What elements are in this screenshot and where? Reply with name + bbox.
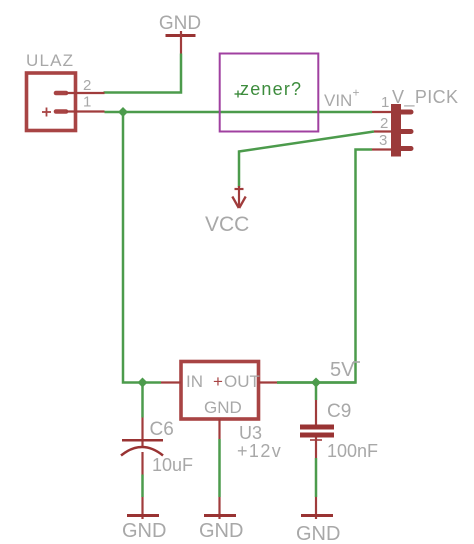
svg-text:2: 2 [83, 77, 91, 94]
svg-text:+12v: +12v [237, 441, 282, 461]
wire 5V junction down to C9 [315, 383, 318, 401]
capacitor C9 [300, 400, 378, 461]
svg-text:GND: GND [204, 398, 242, 417]
ground GND (U3) [199, 497, 243, 542]
wire junction down to C6 [141, 383, 144, 418]
ground GND (top) [159, 13, 201, 54]
label U3 / +12v [237, 423, 282, 461]
zener? box [220, 54, 319, 132]
wire GND-top to ULAZ pin 2 [104, 54, 182, 93]
svg-text:ULAZ: ULAZ [26, 51, 74, 70]
junction 5V node [311, 378, 321, 388]
label zener? [235, 79, 303, 99]
svg-text:VCC: VCC [205, 213, 249, 236]
capacitor C6 (polarized) [121, 418, 193, 476]
ground GND (C9) [296, 497, 340, 544]
svg-text:IN: IN [186, 372, 203, 391]
svg-text:5V: 5V [330, 359, 355, 381]
connector ULAZ [26, 51, 105, 131]
wire C6 to GND [141, 475, 144, 498]
svg-text:+: + [213, 372, 223, 391]
label 5V [330, 359, 360, 381]
svg-text:VIN: VIN [324, 91, 352, 110]
svg-text:2: 2 [380, 115, 388, 132]
wire C9 to GND [315, 458, 318, 497]
supply VCC [205, 186, 249, 236]
svg-text:100nF: 100nF [327, 441, 378, 461]
wire VIN net [105, 111, 373, 114]
svg-text:zener?: zener? [240, 79, 302, 99]
svg-text:GND: GND [199, 520, 243, 542]
voltage regulator U3 [161, 362, 277, 440]
wire U3 GND pin to GND [218, 439, 221, 497]
ground GND (C6) [122, 497, 166, 542]
svg-text:10uF: 10uF [152, 455, 193, 475]
wire V_PICK pin 3 to 5V rail [277, 150, 372, 383]
svg-text:GND: GND [159, 13, 201, 34]
svg-text:U3: U3 [239, 423, 262, 443]
svg-text:V_PICK: V_PICK [392, 87, 458, 108]
wire OUT to 5V junction [277, 381, 356, 384]
wire VIN down-left vertical to regulator IN [123, 112, 161, 383]
junction at C6 branch [138, 378, 148, 388]
wire V_PICK pin 2 to VCC [239, 132, 374, 188]
svg-text:GND: GND [122, 520, 166, 542]
label VIN+ [324, 86, 360, 111]
junction at ULAZ pin 1 [118, 107, 128, 117]
svg-text:1: 1 [381, 94, 389, 111]
svg-text:+: + [353, 86, 360, 100]
svg-text:1: 1 [83, 94, 91, 111]
svg-text:OUT: OUT [224, 372, 260, 391]
svg-text:3: 3 [379, 132, 387, 149]
svg-text:C9: C9 [327, 401, 351, 422]
svg-text:GND: GND [296, 523, 340, 544]
svg-text:C6: C6 [150, 419, 174, 440]
connector V_PICK [372, 87, 458, 157]
